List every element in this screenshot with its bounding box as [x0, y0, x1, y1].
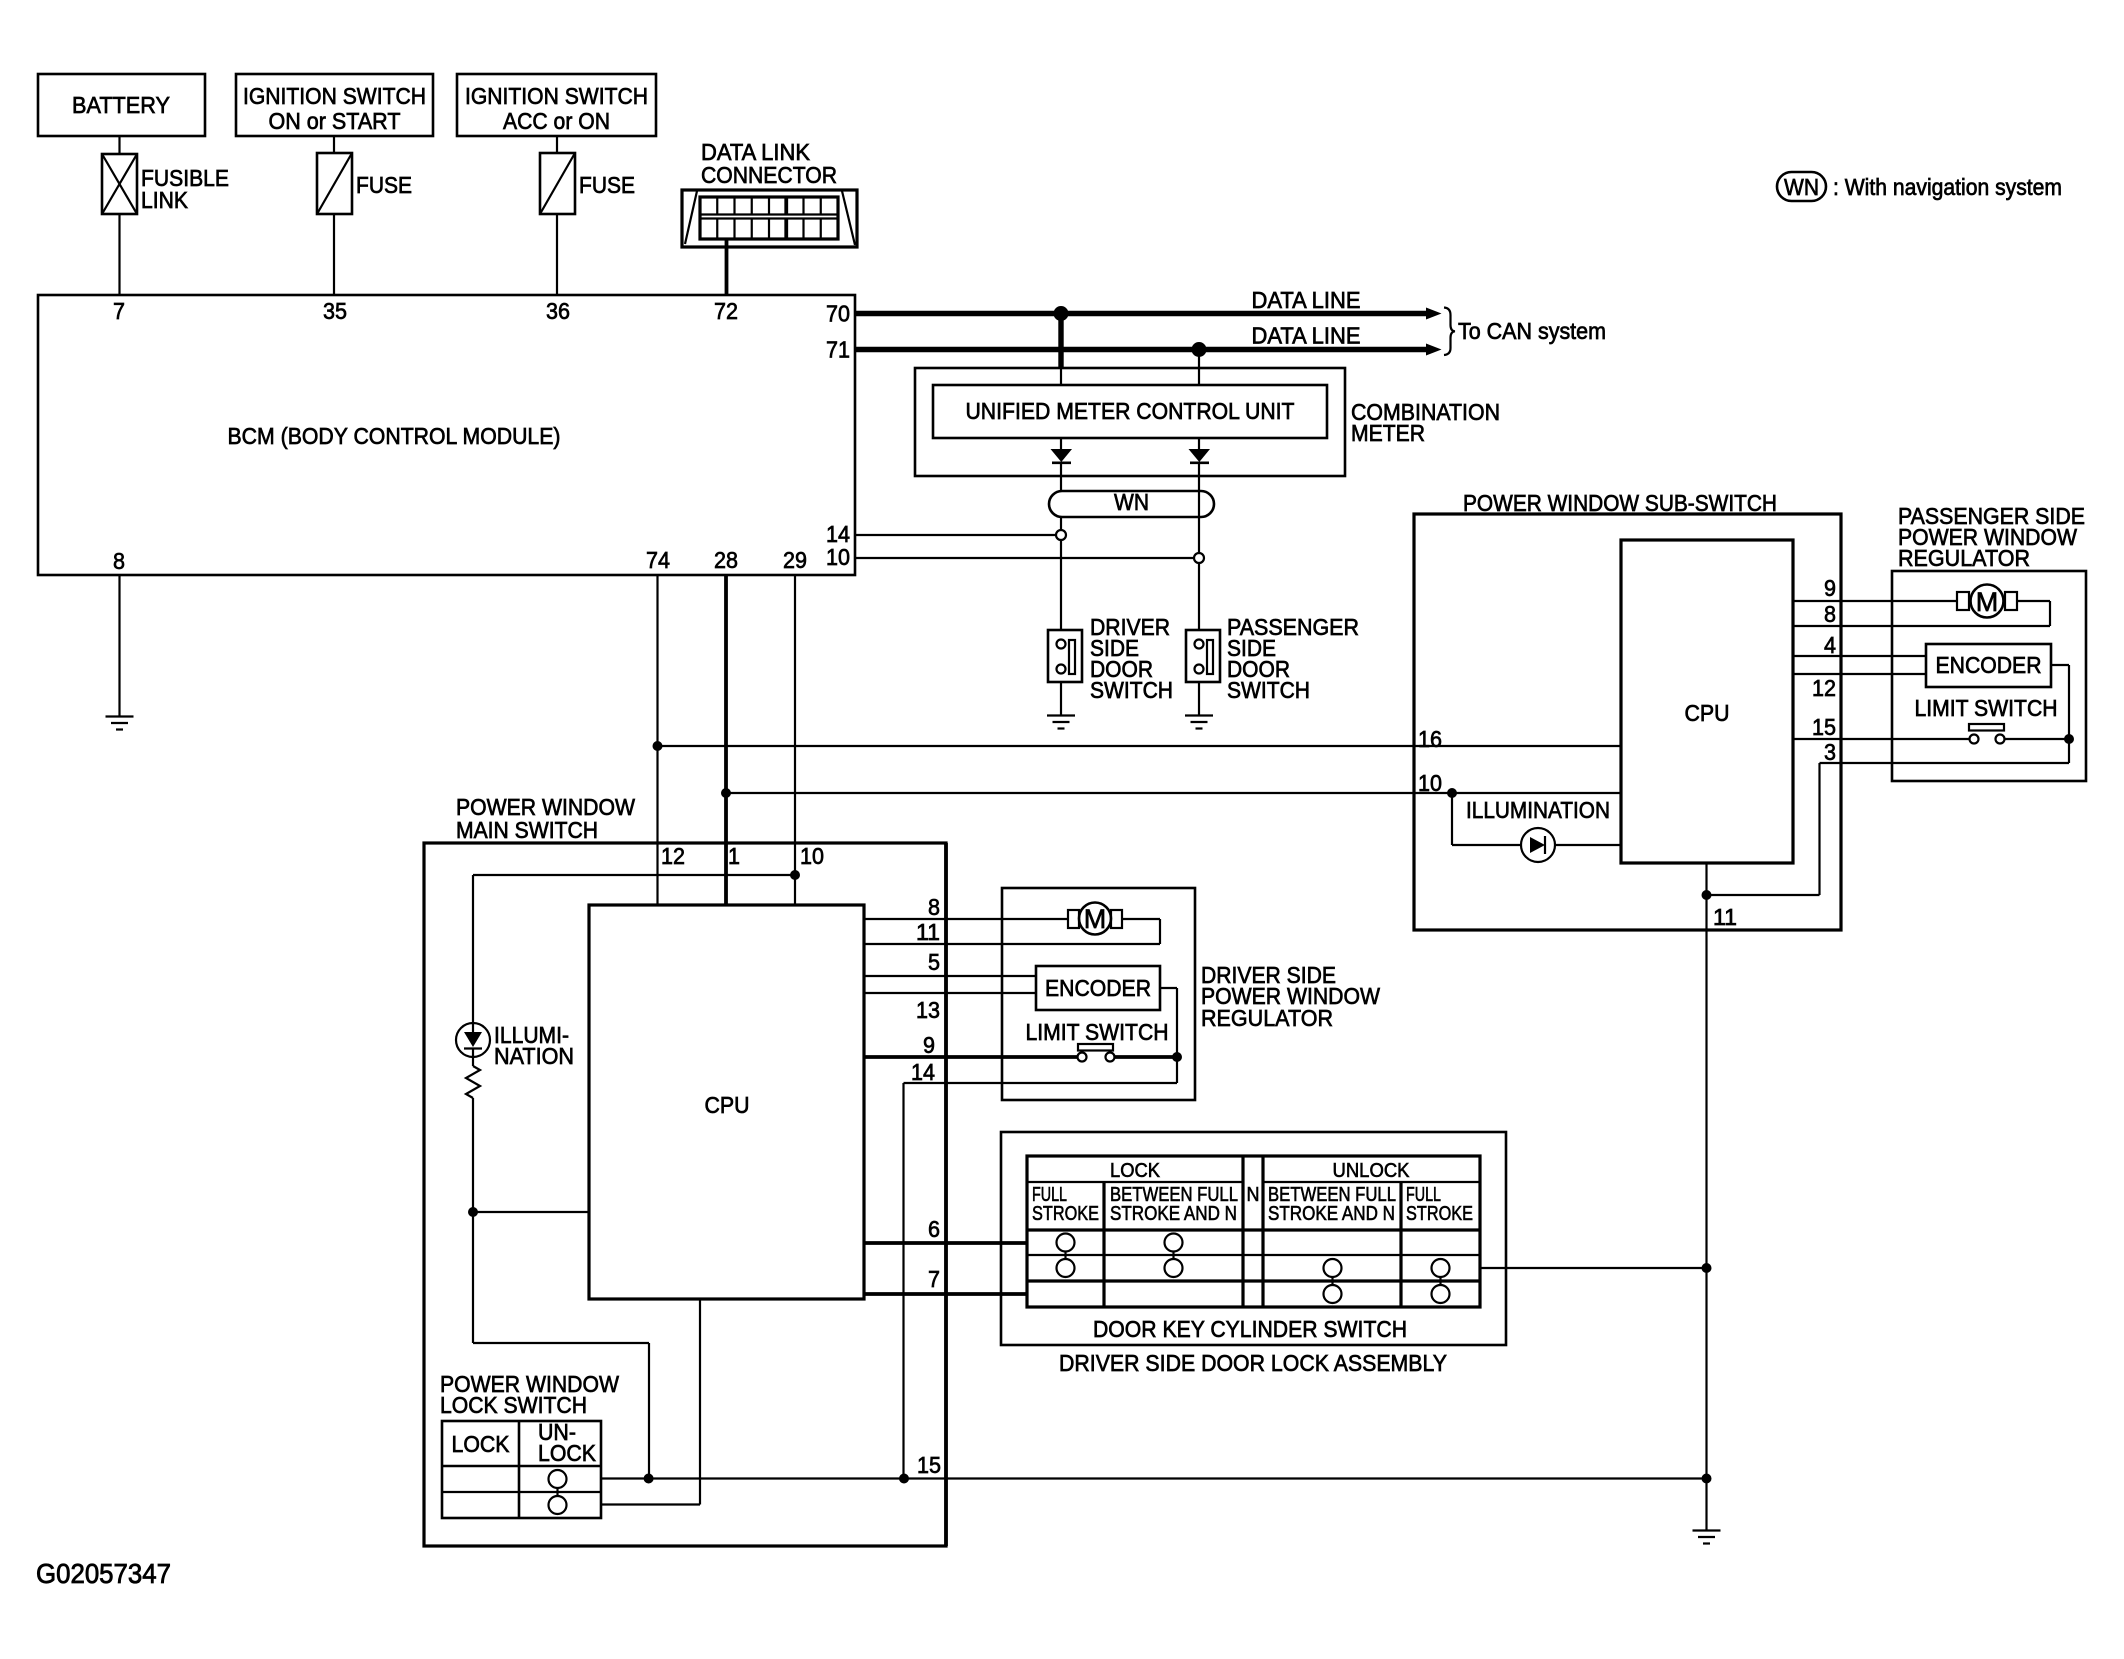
svg-text:LIMIT SWITCH: LIMIT SWITCH: [1915, 695, 2058, 721]
ignition switch ACC or ON box: [457, 74, 656, 136]
svg-text:CONNECTOR: CONNECTOR: [701, 162, 837, 188]
wire illumination branch main switch: [473, 875, 795, 1023]
svg-text:36: 36: [546, 298, 570, 324]
resistor R1 (illumination): [466, 1066, 480, 1098]
wire BCM pin 74 down to main switch pin 12: [656, 575, 658, 905]
junction dot node sub-switch-10 wire: [721, 788, 731, 798]
svg-text:1: 1: [728, 843, 740, 869]
svg-text:11: 11: [916, 919, 940, 945]
open circle node passenger door switch: [1194, 553, 1204, 563]
label DRIVER SIDE POWER WINDOW REGULATOR: [1201, 962, 1380, 1031]
svg-text:DRIVER SIDE DOOR LOCK ASSEMBLY: DRIVER SIDE DOOR LOCK ASSEMBLY: [1059, 1350, 1447, 1376]
wire fuse F1 to BCM pin 35: [333, 214, 335, 295]
wire sub pin 9 to passenger motor: [1793, 600, 1957, 602]
ground passenger door switch: [1185, 716, 1213, 729]
svg-text:DOOR KEY CYLINDER SWITCH: DOOR KEY CYLINDER SWITCH: [1093, 1316, 1407, 1342]
motor M1 driver: [1068, 903, 1122, 935]
svg-text:UNLOCK: UNLOCK: [1333, 1160, 1411, 1182]
svg-text:72: 72: [714, 298, 738, 324]
label BETWEEN FULL STROKE AND N (unlock): [1268, 1184, 1396, 1225]
fusible link symbol: [102, 154, 137, 214]
encoder box passenger: [1926, 644, 2051, 687]
contact circles between full stroke unlock: [1324, 1259, 1342, 1303]
motor M2 passenger: [1957, 585, 2017, 618]
ground main (bottom right): [1693, 1531, 1721, 1544]
svg-text:DATA LINE: DATA LINE: [1252, 323, 1361, 349]
svg-text:LOCK SWITCH: LOCK SWITCH: [440, 1392, 587, 1418]
junction dot illumination return: [468, 1207, 478, 1217]
junction dot limit switch driver: [1172, 1052, 1182, 1062]
power window sub-switch box: [1414, 514, 1841, 930]
wire illumination branch sub-switch: [1452, 793, 1621, 845]
wire fusible link to BCM pin 7: [118, 214, 120, 295]
wire passenger door switch to ground: [1198, 682, 1200, 716]
svg-text:LOCK: LOCK: [1110, 1160, 1161, 1182]
power window lock switch table: [442, 1421, 601, 1518]
passenger side power window regulator box: [1892, 571, 2086, 781]
svg-text:M: M: [1084, 904, 1107, 934]
ground BCM pin 8: [106, 717, 134, 730]
data link connector label: [701, 139, 837, 188]
wire main pin 8 to driver motor: [864, 918, 1068, 920]
wire encoder driver to limit switch junction: [1160, 988, 1177, 1057]
combination meter box: [915, 368, 1345, 476]
WN oval connector (with navigation): [1049, 489, 1214, 517]
junction dot lock row / illumination branch: [644, 1474, 654, 1484]
svg-text:To CAN system: To CAN system: [1458, 318, 1606, 344]
wire node 74 to sub-switch pin 16: [658, 745, 1622, 747]
label POWER WINDOW LOCK SWITCH: [440, 1371, 619, 1418]
diode D1 in combination meter: [1051, 438, 1073, 491]
svg-text:SWITCH: SWITCH: [1090, 677, 1173, 703]
junction dot on data line 71: [1192, 342, 1207, 357]
fuse F2: [540, 153, 575, 214]
unified meter control unit box: [933, 385, 1327, 438]
driver side door lock assembly box: [1001, 1132, 1506, 1345]
svg-text:: With navigation system: : With navigation system: [1833, 174, 2062, 200]
wire junction down to pin 3 wire: [2068, 739, 2070, 763]
svg-text:8: 8: [1824, 601, 1836, 627]
svg-text:ON or START: ON or START: [269, 108, 401, 134]
junction dot node 11: [1702, 890, 1712, 900]
wire sub pin 4 to passenger encoder: [1793, 655, 1926, 657]
svg-text:M: M: [1976, 587, 1999, 617]
svg-text:70: 70: [826, 301, 850, 327]
junction dot pin14 to lock row: [899, 1474, 909, 1484]
label FULL STROKE (unlock): [1406, 1184, 1473, 1225]
contact circles lock switch: [549, 1470, 567, 1514]
wire battery to fusible link: [118, 136, 120, 154]
svg-text:G02057347: G02057347: [36, 1558, 171, 1589]
junction dot on data line 70: [1054, 306, 1069, 321]
svg-text:REGULATOR: REGULATOR: [1898, 545, 2030, 571]
ignition switch ON or START box: [236, 74, 433, 136]
power wire BCM pin 28 down to main switch pin 1: [724, 575, 728, 905]
svg-text:71: 71: [826, 337, 850, 363]
svg-text:LINK: LINK: [141, 187, 189, 213]
label UN-LOCK: [538, 1419, 597, 1466]
contact circles full stroke unlock: [1432, 1259, 1450, 1303]
wire main pin 7 to key cylinder switch: [864, 1292, 1027, 1296]
LED illumination main switch: [456, 1023, 490, 1066]
label COMBINATION METER: [1351, 399, 1500, 446]
svg-text:4: 4: [1824, 632, 1836, 658]
wire WN oval to driver door switch node: [1060, 517, 1062, 531]
svg-text:CPU: CPU: [1685, 700, 1730, 726]
wire ignition1 to fuse F1: [333, 136, 335, 153]
svg-text:12: 12: [1812, 675, 1836, 701]
svg-text:BATTERY: BATTERY: [72, 92, 170, 118]
data line wire pin 71 (CAN-L): [855, 344, 1442, 356]
wire node to driver side door switch: [1060, 540, 1062, 630]
LED illumination sub-switch: [1521, 828, 1555, 862]
wire lock switch row to pin 15: [601, 1477, 1707, 1479]
diode D2 in combination meter: [1189, 438, 1211, 553]
door key cylinder switch table: [1027, 1156, 1480, 1307]
wire sub pin 8 to passenger motor return: [1793, 625, 2050, 627]
svg-text:FUSE: FUSE: [356, 172, 412, 198]
battery box: [38, 74, 205, 136]
junction dot lock switch wire: [1702, 1474, 1712, 1484]
wire sub-switch pin 11 down to ground: [1705, 895, 1707, 1531]
contact circles between full stroke lock: [1165, 1234, 1183, 1278]
svg-text:12: 12: [661, 843, 685, 869]
wire ignition2 to fuse F2: [556, 136, 558, 153]
wire sub pin 12 to passenger encoder: [1793, 673, 1926, 675]
junction dot key cylinder wire: [1702, 1263, 1712, 1273]
wire node 11 to pin 3 riser: [1707, 763, 1820, 895]
wire BCM pin 10 to passenger door switch: [855, 557, 1194, 559]
svg-text:STROKE AND N: STROKE AND N: [1110, 1203, 1237, 1225]
svg-text:11: 11: [1713, 904, 1737, 930]
svg-text:8: 8: [113, 548, 125, 574]
wire BCM pin 29 down to main switch pin 10: [794, 575, 796, 905]
svg-text:STROKE AND N: STROKE AND N: [1268, 1203, 1395, 1225]
passenger side door switch symbol: [1186, 630, 1220, 682]
wire main pin 9 to driver limit switch: [864, 1055, 1078, 1059]
wire resistor to CPU: [472, 1098, 474, 1212]
svg-text:WN: WN: [1114, 489, 1149, 515]
svg-text:15: 15: [917, 1452, 941, 1478]
junction dot node 16-wire: [653, 741, 663, 751]
CPU U2 box (sub-switch): [1621, 540, 1793, 863]
power window main switch box: [424, 843, 946, 1546]
label PASSENGER SIDE POWER WINDOW REGULATOR: [1898, 503, 2085, 571]
svg-text:74: 74: [646, 547, 670, 573]
wire main pin 14 to driver limit switch junction: [904, 1083, 1178, 1479]
wire from data line 71 down to combination meter: [1198, 350, 1200, 386]
encoder box driver: [1036, 966, 1160, 1010]
wire node to passenger side door switch: [1198, 563, 1200, 630]
label FUSIBLE LINK: [141, 165, 229, 213]
svg-text:ENCODER: ENCODER: [1045, 975, 1151, 1001]
BCM (Body Control Module) box: [38, 295, 855, 575]
wire illumination junction down to lock switch: [473, 1212, 649, 1479]
svg-text:29: 29: [783, 547, 807, 573]
svg-text:DATA LINE: DATA LINE: [1252, 287, 1361, 313]
label POWER WINDOW MAIN SWITCH: [456, 794, 635, 843]
junction dot illumination branch main switch: [790, 870, 800, 880]
svg-text:UNIFIED METER CONTROL UNIT: UNIFIED METER CONTROL UNIT: [966, 398, 1295, 424]
wire main pin 13 to driver encoder: [864, 992, 1036, 994]
wire main pin 6 to key cylinder switch: [864, 1241, 1027, 1245]
wire BCM pin 8 to ground: [118, 575, 120, 717]
svg-text:MAIN SWITCH: MAIN SWITCH: [456, 817, 598, 843]
svg-text:IGNITION SWITCH: IGNITION SWITCH: [243, 83, 426, 109]
ground driver door switch: [1047, 716, 1075, 729]
svg-text:7: 7: [113, 298, 125, 324]
junction dot sub-switch illumination tap: [1447, 788, 1457, 798]
label PASSENGER SIDE DOOR SWITCH: [1227, 614, 1359, 703]
svg-text:9: 9: [1824, 575, 1836, 601]
contact circles full stroke lock: [1057, 1234, 1075, 1278]
wire fuse F2 to BCM pin 36: [556, 214, 558, 295]
svg-text:WN: WN: [1784, 174, 1819, 200]
data link connector symbol: [682, 190, 857, 247]
limit switch symbol driver: [1078, 1044, 1178, 1062]
fuse F1: [317, 153, 352, 214]
svg-text:10: 10: [826, 544, 850, 570]
driver side door switch symbol: [1048, 630, 1082, 682]
junction dot limit switch passenger: [2064, 734, 2074, 744]
wire sub pin 15 to passenger limit switch: [1793, 738, 1970, 740]
wire lock switch row 2 to CPU bottom: [601, 1299, 700, 1505]
wire illumination return to CPU left: [473, 1211, 589, 1213]
svg-text:IGNITION SWITCH: IGNITION SWITCH: [465, 83, 648, 109]
wire motor M2 return loop: [2017, 601, 2050, 626]
svg-text:ACC or ON: ACC or ON: [503, 108, 610, 134]
svg-text:7: 7: [928, 1266, 940, 1292]
svg-text:NATION: NATION: [494, 1043, 574, 1069]
open circle node driver door switch: [1056, 530, 1066, 540]
svg-text:14: 14: [911, 1059, 935, 1085]
wire encoder passenger to limit switch junction: [2051, 665, 2069, 739]
wire key cylinder common to node 11: [1480, 1267, 1707, 1269]
label ILLUMI-NATION: [494, 1022, 574, 1069]
label DRIVER SIDE DOOR SWITCH: [1090, 614, 1173, 703]
data line wire pin 70 (CAN-H): [855, 308, 1442, 320]
wire main pin 11 to driver motor return: [864, 943, 1160, 945]
svg-text:10: 10: [800, 843, 824, 869]
wire motor M1 return loop: [1122, 919, 1160, 944]
wire main pin 5 to driver encoder: [864, 975, 1036, 977]
wire junction down to pin 14 wire: [1176, 1057, 1178, 1083]
WN legend symbol: with navigation system: [1777, 172, 2062, 201]
wire node 28 to sub-switch pin 10: [726, 792, 1621, 794]
svg-text:16: 16: [1418, 726, 1442, 752]
svg-text:13: 13: [916, 997, 940, 1023]
svg-text:ILLUMINATION: ILLUMINATION: [1466, 797, 1610, 823]
svg-text:LOCK: LOCK: [452, 1431, 511, 1457]
svg-text:5: 5: [928, 949, 940, 975]
label FULL STROKE (lock): [1032, 1184, 1099, 1225]
svg-text:9: 9: [923, 1032, 935, 1058]
wire from data line 70 down to combination meter: [1058, 314, 1063, 386]
svg-text:3: 3: [1824, 739, 1836, 765]
limit switch symbol passenger: [1969, 724, 2069, 744]
wire BCM pin 14 to driver door switch: [855, 534, 1056, 536]
wire sub cpu bottom to node 11: [1705, 863, 1707, 895]
svg-text:SWITCH: SWITCH: [1227, 677, 1310, 703]
svg-text:CPU: CPU: [705, 1092, 750, 1118]
svg-text:35: 35: [323, 298, 347, 324]
svg-text:N: N: [1247, 1184, 1260, 1206]
driver side power window regulator box: [1002, 888, 1195, 1100]
svg-text:10: 10: [1418, 770, 1442, 796]
svg-text:BCM (BODY CONTROL MODULE): BCM (BODY CONTROL MODULE): [228, 423, 561, 449]
svg-text:15: 15: [1812, 714, 1836, 740]
wire driver door switch to ground: [1060, 682, 1062, 716]
svg-text:FUSE: FUSE: [579, 172, 635, 198]
svg-text:8: 8: [928, 894, 940, 920]
wire data link connector to BCM pin 72: [725, 239, 729, 295]
main switch right edge (thick): [944, 843, 948, 1546]
svg-text:LIMIT SWITCH: LIMIT SWITCH: [1026, 1019, 1169, 1045]
CPU U1 box (main switch): [589, 905, 864, 1299]
svg-text:LOCK: LOCK: [538, 1440, 597, 1466]
svg-text:28: 28: [714, 547, 738, 573]
svg-text:POWER WINDOW SUB-SWITCH: POWER WINDOW SUB-SWITCH: [1463, 490, 1777, 516]
svg-text:6: 6: [928, 1216, 940, 1242]
svg-text:REGULATOR: REGULATOR: [1201, 1005, 1333, 1031]
brace to CAN system: [1444, 308, 1455, 356]
svg-text:STROKE: STROKE: [1032, 1203, 1099, 1225]
svg-text:STROKE: STROKE: [1406, 1203, 1473, 1225]
svg-text:ENCODER: ENCODER: [1936, 652, 2042, 678]
wire sub pin 3 to passenger limit switch common: [1820, 762, 2070, 764]
label BETWEEN FULL STROKE AND N (lock): [1110, 1184, 1238, 1225]
svg-text:METER: METER: [1351, 420, 1425, 446]
